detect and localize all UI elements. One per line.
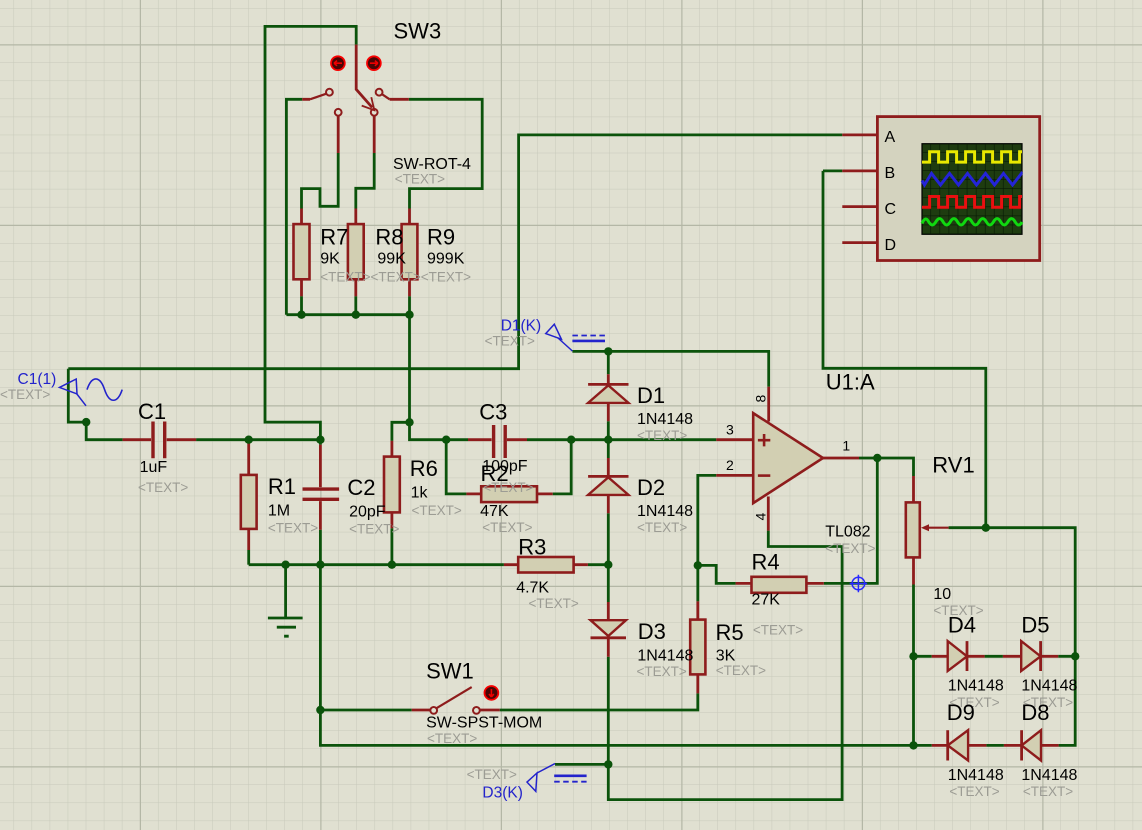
svg-text:D3(K): D3(K): [482, 785, 522, 802]
svg-text:R2: R2: [481, 461, 509, 486]
ground symbol: [268, 618, 303, 636]
wire SW3 left pole down to bus: [286, 99, 302, 314]
svg-text:D4: D4: [948, 613, 976, 638]
svg-text:20pF: 20pF: [349, 504, 386, 521]
wire R2 parallel branch: [446, 440, 571, 494]
potentiometer RV1 body: [906, 502, 920, 557]
svg-text:1: 1: [842, 438, 850, 454]
wire scope channel B to RV1 wiper: [823, 171, 1075, 656]
wire ground node down to SW1: [320, 565, 411, 710]
resistor R3: [518, 557, 573, 573]
svg-text:D8: D8: [1021, 700, 1049, 725]
svg-text:D9: D9: [947, 700, 975, 725]
svg-text:8: 8: [753, 395, 769, 403]
svg-text:<TEXT>: <TEXT>: [637, 520, 687, 535]
junction ground tap: [281, 561, 289, 569]
svg-text:D2: D2: [637, 475, 665, 500]
switch SW1 actuator button: [485, 686, 499, 700]
svg-text:9K: 9K: [320, 251, 340, 268]
wire R7 bottom to bus: [300, 296, 303, 315]
resistor R4: [752, 577, 807, 593]
svg-text:4: 4: [753, 513, 769, 521]
svg-text:SW1: SW1: [426, 658, 474, 683]
capacitor C2 plates: [303, 489, 340, 499]
svg-text:1N4148: 1N4148: [637, 648, 693, 665]
resistor R6: [384, 457, 400, 513]
voltage probe marker at R4 right: [850, 575, 867, 592]
svg-text:R1: R1: [268, 474, 296, 499]
wire input node horizontal to scope channel A: [68, 135, 842, 369]
junction R9 bus: [405, 311, 413, 319]
pin stubs C2: [319, 445, 322, 530]
resistor R2: [481, 486, 537, 502]
svg-text:B: B: [885, 165, 896, 182]
svg-text:C2: C2: [347, 475, 375, 500]
oscilloscope body: [877, 117, 1039, 261]
diode D3: [591, 620, 627, 636]
wire op-amp pin 2 node: [698, 475, 736, 601]
svg-text:<TEXT><TEXT><TEXT>: <TEXT><TEXT><TEXT>: [320, 270, 471, 285]
diode D4: [948, 641, 967, 671]
svg-text:2: 2: [726, 457, 734, 473]
terminal D3(K) arrow: [527, 764, 555, 792]
wire lower bus to D9: [320, 710, 913, 745]
op-amp U1 triangle: [753, 413, 823, 503]
resistor R1: [241, 475, 257, 529]
wire R8 bottom to bus: [354, 296, 357, 315]
pin stubs RV1: [912, 476, 915, 585]
wire SW3 contact 2 to R8 top: [356, 153, 374, 209]
svg-text:C3: C3: [479, 399, 507, 424]
wire SW3 right pole to R9 top: [409, 99, 482, 208]
pin stubs D9: [932, 744, 987, 747]
svg-text:1k: 1k: [411, 484, 429, 501]
svg-text:D1: D1: [637, 383, 665, 408]
svg-text:27K: 27K: [752, 591, 781, 608]
svg-text:R9: R9: [427, 225, 455, 250]
svg-text:R5: R5: [716, 620, 744, 645]
junction D4 left: [909, 652, 917, 660]
capacitor C3 plates: [494, 425, 506, 458]
junction op-amp output: [873, 454, 881, 462]
svg-text:D: D: [885, 237, 897, 254]
pin stubs D5: [1003, 655, 1058, 658]
diode D2: [588, 477, 628, 495]
pin stubs R1: [247, 440, 250, 550]
pin stubs R6: [390, 441, 393, 528]
svg-text:<TEXT>: <TEXT>: [949, 784, 999, 799]
wire ground stem: [284, 565, 287, 618]
junction SW1 left: [316, 706, 324, 714]
svg-text:99K: 99K: [377, 251, 406, 268]
svg-text:R8: R8: [375, 225, 403, 250]
svg-text:<TEXT>: <TEXT>: [427, 731, 477, 746]
svg-text:C: C: [885, 201, 897, 218]
switch SW3 pole levers: [310, 94, 390, 100]
svg-text:<TEXT>: <TEXT>: [482, 520, 532, 535]
pin stub scope C: [842, 205, 877, 208]
pin stubs D3: [607, 602, 610, 657]
junction RV1 wiper: [982, 524, 990, 532]
pin stubs C1: [123, 438, 197, 441]
svg-text:R6: R6: [410, 456, 438, 481]
wire C1(1) terminal to C1 left: [68, 369, 122, 440]
pin stubs SW1: [412, 709, 500, 712]
pin stubs R2: [466, 492, 552, 495]
pin stub SW3 wiper arm: [356, 45, 372, 108]
junction generator tap: [82, 418, 90, 426]
op-amp plus symbol: [758, 434, 770, 446]
junction C3 right: [567, 436, 575, 444]
wire bus junction down to R6 top and main node: [392, 315, 410, 441]
svg-text:SW3: SW3: [394, 19, 442, 44]
pin stubs R7: [300, 209, 303, 297]
svg-text:R7: R7: [320, 225, 348, 250]
junction C2 top / wiper feed: [316, 436, 324, 444]
pin stubs R9: [408, 209, 411, 297]
switch SW3 contact circles: [326, 89, 383, 116]
wire RV1 bottom to D4 and D9: [912, 585, 915, 746]
wire R1 bottom: [247, 550, 250, 565]
svg-text:A: A: [885, 129, 896, 146]
wire R6 bottom: [390, 528, 393, 565]
terminal D1(K) DC symbol: [572, 335, 605, 337]
svg-text:C1(1): C1(1): [18, 371, 57, 388]
svg-text:D5: D5: [1021, 613, 1049, 638]
svg-text:1N4148: 1N4148: [948, 767, 1004, 784]
pin stub scope A: [842, 133, 877, 136]
pin stubs SW3 contacts: [302, 99, 409, 153]
junction C2 bottom: [316, 561, 324, 569]
svg-text:<TEXT>: <TEXT>: [1023, 784, 1073, 799]
switch SW3 actuator button left: [331, 56, 345, 70]
svg-text:D1(K): D1(K): [501, 318, 541, 335]
resistor R7: [294, 224, 310, 279]
wire D3 top: [607, 565, 610, 602]
svg-text:<TEXT>: <TEXT>: [825, 541, 875, 556]
junction R6 bottom: [388, 561, 396, 569]
svg-text:<TEXT>: <TEXT>: [637, 664, 687, 679]
svg-text:TL082: TL082: [825, 523, 870, 540]
svg-text:R3: R3: [518, 535, 546, 560]
svg-text:<TEXT>: <TEXT>: [412, 503, 462, 518]
wire SW3 wiper feed from node: [265, 26, 356, 439]
wire SW3 contact 1 to R7 top: [302, 153, 339, 209]
pin stubs D4: [932, 655, 985, 658]
wire SW1 right to R5 bottom: [500, 693, 698, 710]
pin stubs op-amp U1:A: [716, 387, 859, 531]
svg-text:1N4148: 1N4148: [637, 411, 693, 428]
svg-text:3K: 3K: [716, 648, 736, 665]
resistor R8: [348, 224, 364, 279]
svg-text:1N4148: 1N4148: [1021, 677, 1077, 694]
svg-text:C1: C1: [138, 399, 166, 424]
junction D5 right: [1071, 652, 1079, 660]
svg-text:999K: 999K: [427, 251, 465, 268]
svg-text:R4: R4: [752, 550, 780, 575]
junction D1 cathode net: [604, 347, 612, 355]
diode D9: [948, 730, 968, 760]
svg-text:SW-ROT-4: SW-ROT-4: [393, 156, 471, 173]
wire ground bus horizontal: [249, 563, 609, 566]
wire C1 right to R6 node: [196, 438, 320, 441]
capacitor C1 plates: [153, 422, 165, 459]
pin stubs R8: [354, 209, 357, 297]
terminal D1(K) arrow: [546, 324, 573, 351]
oscilloscope trace channel A yellow square wave: [922, 152, 1022, 162]
resistor R9: [402, 224, 418, 279]
svg-text:1N4148: 1N4148: [948, 677, 1004, 694]
svg-text:<TEXT>: <TEXT>: [349, 522, 399, 537]
junction D9 left: [909, 741, 917, 749]
wire C2 connections: [319, 440, 322, 565]
switch SW3 wiper arrowhead: [362, 97, 375, 110]
svg-text:<TEXT>: <TEXT>: [395, 172, 445, 187]
junction pin2 R4 R5: [694, 561, 702, 569]
junction R8 bus: [352, 311, 360, 319]
junction D3(K) terminal: [604, 760, 612, 768]
wire R9 bottom to bus: [408, 296, 411, 315]
resistor R5: [690, 620, 705, 675]
diode D8: [1022, 730, 1041, 760]
wire D1 D2 vertical column: [607, 351, 610, 564]
svg-text:47K: 47K: [480, 503, 509, 520]
svg-text:1N4148: 1N4148: [637, 503, 693, 520]
pin stubs D2: [607, 458, 610, 513]
svg-text:10: 10: [933, 586, 951, 603]
svg-text:RV1: RV1: [932, 452, 974, 477]
junction R1 top: [245, 436, 253, 444]
svg-text:1M: 1M: [268, 502, 290, 519]
junction R7 bus: [297, 311, 305, 319]
wire D8 right column: [1059, 656, 1076, 745]
pin stubs R5: [696, 601, 699, 693]
wire op-amp output node: [824, 458, 914, 583]
oscilloscope screen: [922, 144, 1022, 235]
junction main node at D1 D2: [604, 436, 612, 444]
svg-text:<TEXT>: <TEXT>: [467, 767, 517, 782]
wire op-amp pin 4 to D3 cathode net: [555, 531, 842, 800]
svg-text:<TEXT>: <TEXT>: [138, 480, 188, 495]
op-amp minus symbol: [758, 474, 770, 477]
wire R7 R8 R9 bottom bus: [286, 313, 409, 316]
switch SW3 actuator button right: [367, 56, 381, 70]
svg-text:<TEXT>: <TEXT>: [753, 623, 803, 638]
pin stubs D8: [1004, 744, 1059, 747]
switch SW1 lever: [436, 687, 471, 708]
oscilloscope trace channel D green sine wave: [922, 219, 1022, 225]
wire D1(K) terminal to op-amp pin 8: [572, 351, 768, 386]
terminal D3(K) DC symbol: [554, 774, 586, 777]
svg-text:<TEXT>: <TEXT>: [529, 596, 579, 611]
svg-text:U1:A: U1:A: [826, 370, 875, 395]
svg-text:1N4148: 1N4148: [1021, 767, 1077, 784]
svg-text:SW-SPST-MOM: SW-SPST-MOM: [426, 714, 542, 731]
svg-text:<TEXT>: <TEXT>: [637, 428, 687, 443]
svg-text:4.7K: 4.7K: [516, 579, 549, 596]
potentiometer RV1 wiper arrow: [926, 527, 949, 529]
svg-text:<TEXT>: <TEXT>: [485, 334, 535, 349]
pin stubs R3: [504, 563, 588, 566]
svg-text:3: 3: [726, 422, 734, 438]
svg-text:<TEXT>: <TEXT>: [716, 663, 766, 678]
diode D5: [1021, 641, 1040, 671]
oscilloscope trace channel C red square wave: [922, 197, 1022, 208]
wire D4 D5 row: [914, 655, 1076, 658]
junction D2 D3 R3: [604, 561, 612, 569]
generator C1(1) sine symbol: [87, 379, 122, 400]
junction R6 top: [405, 418, 413, 426]
oscilloscope trace channel B blue triangle wave: [922, 173, 1022, 185]
svg-text:<TEXT>: <TEXT>: [0, 387, 50, 402]
pin stub scope B: [842, 169, 877, 172]
switch SW1 contact circles: [430, 707, 479, 714]
svg-text:D3: D3: [638, 619, 666, 644]
pin stubs R4: [736, 582, 824, 585]
svg-text:<TEXT>: <TEXT>: [268, 521, 318, 536]
pin stubs C3: [468, 438, 527, 441]
svg-text:1uF: 1uF: [140, 459, 168, 476]
pin stub scope D: [842, 241, 877, 244]
wire D9 D8 row: [914, 744, 1004, 747]
diode D1: [588, 385, 628, 403]
pin stubs D1: [607, 374, 610, 421]
junction C3 left: [442, 436, 450, 444]
wire main node horizontal to op-amp pin 3: [446, 438, 716, 441]
generator C1(1) terminal arrow: [60, 379, 87, 406]
